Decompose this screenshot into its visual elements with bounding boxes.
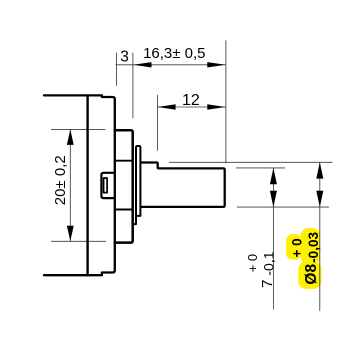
svg-text:-0,03: -0,03 <box>306 232 321 263</box>
anti-rotation tab outer <box>101 173 114 198</box>
shaft bore line upper <box>115 160 132 162</box>
arrow 12 right <box>207 104 225 109</box>
arrow 16,3 left <box>133 62 151 67</box>
arrow 20 bottom <box>67 226 74 242</box>
extension line shaft bottom level <box>237 206 329 208</box>
shaft with flat <box>141 163 224 207</box>
highlight Ø8 tolerance lower <box>301 228 321 264</box>
body front section edge <box>86 95 88 275</box>
label diameter 8 with tolerance <box>289 232 321 285</box>
extension line bushing front face <box>132 53 134 119</box>
dimension line diameter 8 <box>319 162 321 311</box>
svg-text:+ 0: + 0 <box>245 254 260 272</box>
svg-text:Ø8: Ø8 <box>303 264 320 285</box>
arrow 20 top <box>67 129 74 145</box>
extension line 20 bottom <box>51 240 106 242</box>
arrow dia8 down <box>316 191 323 207</box>
arrow 7 down <box>270 191 277 207</box>
arrow dia8 up <box>316 162 323 178</box>
label 20 +/- 0,2 <box>52 155 69 205</box>
svg-text:+ 0: + 0 <box>289 238 304 257</box>
dimension line 7 <box>272 168 274 310</box>
extension line shaft flat start <box>156 95 158 151</box>
svg-text:12: 12 <box>182 92 200 109</box>
dimension line 3 and 16,3 <box>116 64 226 66</box>
extension line 20 top <box>51 128 105 130</box>
shaft bore line lower <box>115 209 132 211</box>
bushing <box>115 130 133 242</box>
highlight Ø8 tolerance upper <box>286 234 302 260</box>
svg-text:16,3± 0,5: 16,3± 0,5 <box>143 45 205 62</box>
dimension line 12 <box>157 106 225 108</box>
arrow 7 up <box>270 168 277 184</box>
washer <box>133 146 140 224</box>
extension line shaft top level <box>169 161 333 163</box>
dimension line 20 <box>69 129 71 241</box>
anti-rotation tab inner <box>104 178 108 193</box>
svg-text:20± 0,2: 20± 0,2 <box>52 155 69 205</box>
body outline with mounting plate <box>44 95 115 275</box>
extension line flat level <box>236 167 285 169</box>
label 7 with tolerance <box>245 251 277 288</box>
extension line top left (bushing rear face) <box>116 53 118 86</box>
svg-text:3: 3 <box>120 49 129 66</box>
highlight Ø8 value <box>298 262 321 289</box>
arrow 12 left <box>157 104 175 109</box>
arrow 16,3 right <box>207 62 225 67</box>
svg-text:7: 7 <box>259 279 276 287</box>
svg-text:-0,1: -0,1 <box>261 251 277 275</box>
extension line shaft end <box>225 41 227 164</box>
